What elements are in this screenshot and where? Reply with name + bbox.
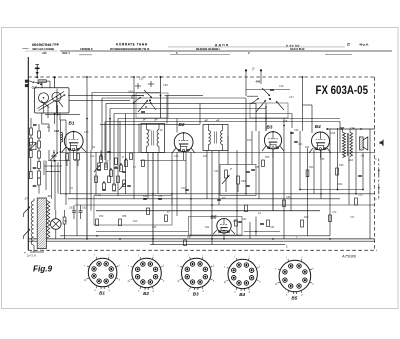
svg-text:S7: S7 <box>25 197 29 201</box>
svg-text:C50: C50 <box>233 220 238 223</box>
svg-text:R28: R28 <box>339 164 344 167</box>
component value labels <box>47 120 363 239</box>
speaker icon right <box>380 139 384 146</box>
svg-text:p: p <box>252 67 255 71</box>
svg-text:C40: C40 <box>181 187 186 190</box>
svg-text:287: 287 <box>339 126 345 130</box>
tube B1 <box>64 121 83 151</box>
wire <box>41 113 43 124</box>
svg-text:R: R <box>122 156 124 159</box>
output transformer S9/S10 <box>339 126 355 162</box>
tube B2 <box>174 122 193 152</box>
bus wiring <box>28 90 374 245</box>
svg-text:C13: C13 <box>139 78 144 81</box>
svg-text:C: C <box>107 160 109 163</box>
svg-text:R32: R32 <box>338 183 343 186</box>
svg-text:ЛУЗΘΘΘΘΘΘHOΘHΜ 7Θ Θ: ЛУЗΘΘΘΘΘΘHOΘHΜ 7Θ Θ <box>110 47 150 51</box>
power transformer S7/S8 <box>25 194 52 248</box>
svg-text:C48: C48 <box>128 90 133 94</box>
svg-text:B2: B2 <box>143 291 149 296</box>
svg-text:R26: R26 <box>305 146 310 149</box>
svg-text:C58: C58 <box>241 180 246 183</box>
svg-text:B2: B2 <box>179 122 185 127</box>
tube socket B5 <box>275 257 314 300</box>
svg-text:13ЯΘΘ Σ: 13ЯΘΘ Σ <box>80 47 93 51</box>
left frame line <box>27 57 29 250</box>
oscillator switch S2 cluster <box>245 67 294 119</box>
svg-text:R47: R47 <box>187 236 192 239</box>
left resistor column <box>29 118 40 194</box>
filter CH1 box <box>38 80 46 83</box>
svg-text:1: 1 <box>286 245 288 249</box>
svg-text:49 p.K.: 49 p.K. <box>359 43 369 47</box>
svg-text:C35: C35 <box>152 226 157 229</box>
svg-text:114·Σ Θ: 114·Σ Θ <box>27 254 36 258</box>
svg-text:C55: C55 <box>255 166 260 169</box>
tube socket B2 <box>128 255 165 296</box>
pilot lamp <box>51 219 62 230</box>
gram pickup dashed bracket <box>375 159 380 199</box>
svg-text:S10: S10 <box>348 158 354 162</box>
svg-text:3Θ2 4: 3Θ2 4 <box>62 51 70 55</box>
B5 grid coupling <box>235 220 238 226</box>
svg-text:C28: C28 <box>283 120 288 123</box>
AVC feedback wiring <box>92 93 340 197</box>
svg-text:3F: 3F <box>143 117 147 121</box>
antenna terminal A1 <box>36 65 38 78</box>
svg-text:128: 128 <box>350 127 355 131</box>
choke CH2 <box>61 133 63 143</box>
svg-text:C74: C74 <box>350 216 355 219</box>
svg-text:3F: 3F <box>154 117 158 121</box>
oscillator trimmer cluster <box>94 151 132 190</box>
svg-text:C19: C19 <box>279 85 284 88</box>
svg-text:i3a: i3a <box>361 154 365 157</box>
svg-text:R40: R40 <box>304 216 309 219</box>
svg-text:C54: C54 <box>270 226 275 229</box>
svg-text:P: P <box>230 167 232 171</box>
svg-text:400: 400 <box>256 80 261 84</box>
electrolytic capacitors C61 C62 <box>72 210 76 212</box>
wire <box>57 105 59 115</box>
svg-text:B4: B4 <box>239 292 245 297</box>
resistor near pilot lamp <box>63 217 66 224</box>
svg-text:CH2: CH2 <box>54 129 60 133</box>
svg-text:P30: P30 <box>99 215 104 218</box>
tube socket B1 <box>84 255 121 295</box>
IF transformer 2 (4F) <box>203 118 228 150</box>
tube B2 pins <box>183 152 185 160</box>
svg-text:B3: B3 <box>267 125 273 130</box>
svg-text:C17: C17 <box>289 95 294 99</box>
svg-text:KOЯЯATE TAHH: KOЯЯATE TAHH <box>116 43 148 47</box>
vertical wiring grid <box>57 89 370 245</box>
svg-text:B4: B4 <box>315 124 321 129</box>
band switch S1 cluster <box>128 76 168 118</box>
svg-text:R18: R18 <box>203 155 208 158</box>
svg-text:C44: C44 <box>214 170 219 173</box>
tuning capacitor C1 <box>52 154 57 156</box>
svg-text:6Θ2Θ67Θ46 ΓPP: 6Θ2Θ67Θ46 ΓPP <box>32 43 60 47</box>
svg-text:B5: B5 <box>211 215 217 220</box>
svg-text:9A9 9 M Θ: 9A9 9 M Θ <box>290 47 305 51</box>
svg-text:B5: B5 <box>291 295 297 300</box>
misc small components <box>96 132 362 245</box>
svg-text:C45: C45 <box>163 83 168 87</box>
svg-text:R19: R19 <box>247 139 252 142</box>
svg-text:C12: C12 <box>90 155 95 158</box>
output stage box <box>94 196 172 226</box>
mains input arrows <box>24 207 31 214</box>
svg-text:Fig.9: Fig.9 <box>33 265 53 274</box>
drops from top dashed line <box>86 77 88 119</box>
svg-text:FX 603A-05: FX 603A-05 <box>316 83 369 97</box>
svg-text:P88: P88 <box>122 215 127 218</box>
svg-text:C25: C25 <box>174 155 179 158</box>
svg-text:S8: S8 <box>48 194 52 198</box>
header parts list table <box>23 43 393 55</box>
svg-text:C62: C62 <box>82 207 87 210</box>
wire <box>59 113 61 120</box>
tube socket B3 <box>177 255 214 296</box>
tube B5 <box>211 215 232 234</box>
antenna coil unit <box>35 88 69 113</box>
aerial input terminals <box>25 80 28 82</box>
wire <box>54 77 56 87</box>
dashed bottom frame line <box>28 249 377 251</box>
svg-text:A75089: A75089 <box>341 254 357 259</box>
svg-text:C63: C63 <box>298 143 303 146</box>
svg-text:R25: R25 <box>265 156 270 159</box>
tube B3 pins <box>272 149 274 158</box>
mains wires <box>33 248 35 252</box>
tube B1 pins <box>73 150 75 160</box>
svg-text:C20: C20 <box>112 190 117 193</box>
svg-text:C70: C70 <box>358 194 363 197</box>
svg-text:R44: R44 <box>205 226 210 229</box>
dashed right frame line <box>374 77 376 250</box>
wire <box>41 83 43 88</box>
svg-text:41Σ: 41Σ <box>42 51 47 55</box>
volume potentiometer <box>30 143 37 150</box>
svg-text:C60: C60 <box>294 129 299 132</box>
svg-text:C72: C72 <box>332 211 337 214</box>
svg-text:C61: C61 <box>69 207 74 210</box>
svg-text:Z!: Z! <box>347 43 350 47</box>
tube B4 <box>312 124 330 150</box>
detector volume control box <box>220 165 256 196</box>
svg-text:C18: C18 <box>84 131 89 134</box>
dashed top frame line <box>28 76 374 78</box>
tube B5 pins <box>223 233 225 239</box>
tube B4 pins <box>320 150 322 158</box>
svg-text:C68: C68 <box>331 132 336 135</box>
svg-text:C65: C65 <box>320 158 325 161</box>
svg-text:ΘΗΘΗΘ ΘΗΘΘΗ: ΘΗΘΗΘ ΘΗΘΘΗ <box>196 47 220 51</box>
svg-text:R10: R10 <box>133 220 138 223</box>
svg-text:B3: B3 <box>193 291 199 296</box>
tube socket B4 <box>224 256 261 297</box>
svg-text:R21: R21 <box>222 197 227 200</box>
svg-text:4F: 4F <box>205 118 209 122</box>
svg-text:B1: B1 <box>99 290 105 295</box>
loudspeaker <box>359 137 367 158</box>
band switch lower wiring <box>45 161 47 191</box>
tube B3 <box>264 125 281 149</box>
svg-text:B1: B1 <box>69 121 75 126</box>
cathode resistors under B1 <box>66 154 69 161</box>
B5 stage box <box>189 217 243 236</box>
svg-text:R30: R30 <box>309 166 314 169</box>
dot on dashed line <box>36 76 38 78</box>
IF transformer 1 (3F) <box>141 117 165 152</box>
svg-text:C66: C66 <box>286 196 291 199</box>
svg-text:4F: 4F <box>216 118 220 122</box>
svg-text:C52: C52 <box>242 218 247 221</box>
